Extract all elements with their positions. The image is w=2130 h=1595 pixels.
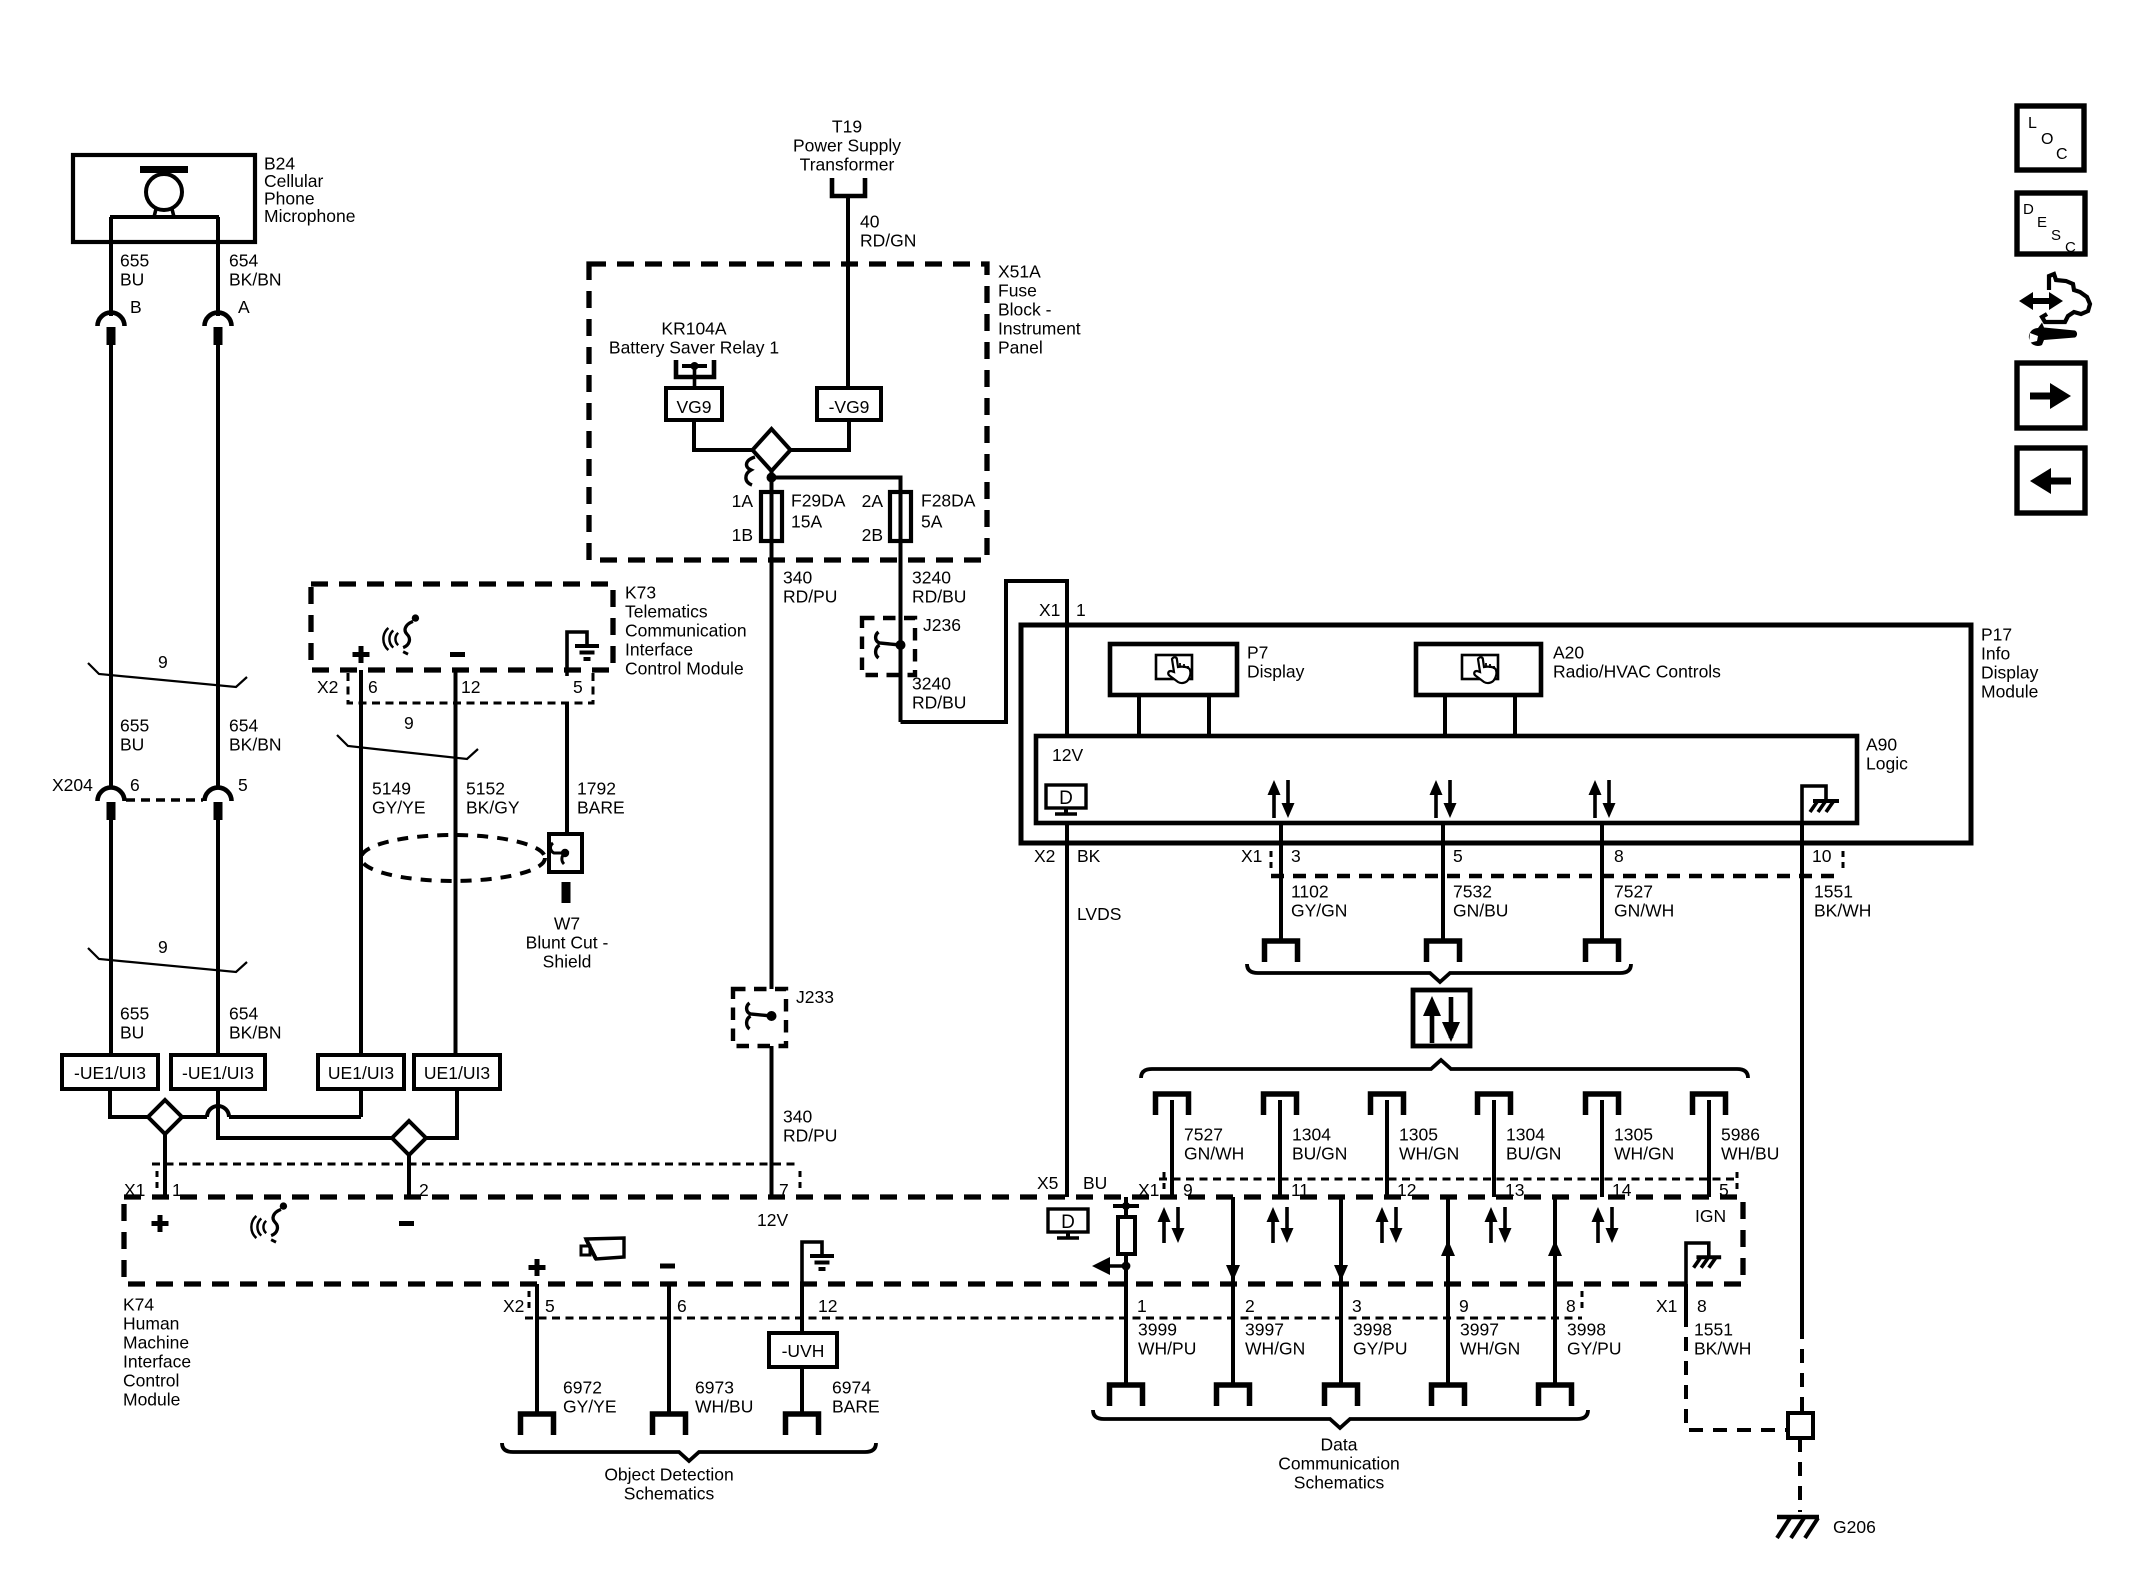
logic A90 box	[1036, 736, 1857, 823]
plus sign K74 pin1	[152, 1215, 169, 1232]
terminal and wire to K74 pin 14	[1586, 1094, 1619, 1115]
wire 6972 GY/YE	[535, 1284, 539, 1414]
svg-text:RD/PU: RD/PU	[783, 587, 837, 607]
plus sign K73	[353, 646, 370, 663]
svg-text:C: C	[2065, 239, 2076, 256]
svg-text:Data: Data	[1321, 1435, 1358, 1455]
svg-text:Communication: Communication	[625, 621, 747, 641]
svg-text:9: 9	[158, 937, 168, 957]
svg-text:Fuse: Fuse	[998, 281, 1037, 301]
svg-text:Blunt Cut -: Blunt Cut -	[526, 933, 609, 953]
module P17 box	[1021, 625, 1971, 843]
svg-text:Display: Display	[1981, 663, 2039, 683]
wire from -VG9 to diamond junction	[791, 420, 849, 450]
junction node below diamond	[770, 471, 774, 492]
svg-text:X5: X5	[1037, 1173, 1058, 1193]
connector X2 strip of K74 bottom	[525, 1317, 1582, 1320]
wire 7532 GN/BU	[1441, 823, 1445, 941]
stem diamond 1 to K74 pin 1	[163, 1134, 167, 1197]
wire 654 BK/BN segment to X204	[216, 345, 220, 788]
svg-text:12: 12	[818, 1296, 837, 1316]
terminal for 7527	[1586, 941, 1619, 962]
minus sign K74 pin2	[399, 1221, 414, 1226]
svg-text:Human: Human	[123, 1314, 179, 1334]
svg-text:E: E	[2037, 214, 2047, 231]
brace above six terminals	[1141, 1060, 1748, 1078]
svg-text:L: L	[2028, 115, 2037, 132]
svg-text:15A: 15A	[791, 512, 822, 532]
svg-text:BU: BU	[120, 735, 144, 755]
icon arrow left box	[2017, 448, 2085, 513]
svg-text:RD/BU: RD/BU	[912, 693, 966, 713]
svg-text:WH/GN: WH/GN	[1460, 1339, 1520, 1359]
svg-text:WH/BU: WH/BU	[695, 1397, 753, 1417]
microphone icon in K73	[383, 614, 419, 654]
svg-text:5: 5	[545, 1296, 555, 1316]
svg-text:Logic: Logic	[1866, 754, 1908, 774]
svg-text:W7: W7	[554, 914, 580, 934]
terminal for 7532	[1427, 941, 1460, 962]
relay KR104A coil symbol	[676, 360, 714, 388]
svg-text:BK/BN: BK/BN	[229, 735, 282, 755]
wire 6973 WH/BU	[667, 1284, 671, 1414]
svg-text:WH/PU: WH/PU	[1138, 1339, 1196, 1359]
svg-text:T19: T19	[832, 117, 862, 137]
svg-text:BARE: BARE	[577, 798, 625, 818]
wire 5152 BK/GY	[454, 670, 458, 1055]
svg-text:G206: G206	[1833, 1517, 1876, 1537]
svg-text:Module: Module	[1981, 682, 2038, 702]
connector X204 dashed link	[126, 798, 203, 801]
connector X204 pin 6	[98, 788, 125, 821]
wire from VG9 to diamond junction	[694, 420, 752, 450]
svg-text:GY/YE: GY/YE	[563, 1397, 617, 1417]
svg-text:3997: 3997	[1460, 1320, 1499, 1340]
blunt cut stub W7	[562, 882, 571, 903]
svg-text:Control Module: Control Module	[625, 659, 744, 679]
svg-text:-UVH: -UVH	[782, 1341, 825, 1361]
icon arrow right box	[2017, 363, 2085, 428]
wire 655 BU lower segment	[109, 820, 113, 1055]
svg-text:C: C	[2056, 146, 2068, 163]
svg-text:BK/BN: BK/BN	[229, 1023, 282, 1043]
svg-text:GY/PU: GY/PU	[1567, 1339, 1621, 1359]
svg-text:BK/WH: BK/WH	[1814, 901, 1871, 921]
svg-text:J236: J236	[923, 615, 961, 635]
svg-text:1305: 1305	[1614, 1125, 1653, 1145]
microphone icon in K74	[251, 1202, 287, 1242]
svg-text:BK/WH: BK/WH	[1694, 1339, 1751, 1359]
svg-text:KR104A: KR104A	[661, 319, 727, 339]
svg-text:X2: X2	[1034, 846, 1055, 866]
svg-text:BU: BU	[120, 270, 144, 290]
wire hop over 654	[182, 1106, 361, 1117]
twisted pair marker 9 K73	[337, 735, 478, 759]
arrow pairs in K74	[1158, 1207, 1185, 1243]
svg-text:P17: P17	[1981, 625, 2012, 645]
svg-text:BU: BU	[120, 1023, 144, 1043]
svg-text:LVDS: LVDS	[1077, 904, 1121, 924]
svg-text:A: A	[238, 297, 250, 317]
terminal 6972	[521, 1414, 554, 1435]
svg-text:Transformer: Transformer	[800, 155, 895, 175]
touch icon P7	[1156, 655, 1192, 683]
svg-text:-VG9: -VG9	[829, 397, 870, 417]
wire 1792 BARE	[565, 703, 569, 836]
connector X2 of K73 outline	[348, 673, 593, 703]
svg-text:8: 8	[1614, 846, 1624, 866]
svg-text:7527: 7527	[1614, 882, 1653, 902]
svg-text:8: 8	[1697, 1296, 1707, 1316]
P7 wires to A90	[1137, 695, 1141, 736]
box -UE1/UI3 second	[171, 1055, 265, 1089]
microphone B24 Cellular Phone Microphone	[73, 155, 255, 242]
wire 3998 GY/PU data	[1339, 1284, 1343, 1385]
brace under A90 terminals	[1247, 964, 1631, 982]
wire 7527 GN/WH	[1600, 823, 1604, 941]
terminal and wire to K74 pin 11	[1264, 1094, 1297, 1115]
wire 1102 GY/GN	[1279, 823, 1283, 941]
svg-text:X51A: X51A	[998, 262, 1041, 282]
svg-text:3997: 3997	[1245, 1320, 1284, 1340]
svg-text:1305: 1305	[1399, 1125, 1438, 1145]
svg-text:6: 6	[368, 677, 378, 697]
svg-text:BARE: BARE	[832, 1397, 880, 1417]
display D icon in A90	[1046, 785, 1086, 814]
terminal 3998	[1325, 1385, 1358, 1406]
svg-text:1304: 1304	[1292, 1125, 1331, 1145]
box UE1/UI3 fourth	[414, 1055, 500, 1089]
terminal 3997	[1217, 1385, 1250, 1406]
connector X1 strip of K74	[152, 1163, 800, 1166]
svg-text:J233: J233	[796, 987, 834, 1007]
svg-text:5149: 5149	[372, 779, 411, 799]
svg-text:X2: X2	[317, 677, 338, 697]
svg-text:Machine: Machine	[123, 1333, 189, 1353]
svg-text:3: 3	[1352, 1296, 1362, 1316]
box UE1/UI3 third	[318, 1055, 404, 1089]
svg-text:12V: 12V	[757, 1210, 788, 1230]
splice curl symbol	[746, 457, 755, 485]
fuse block X51A dashed box	[589, 264, 987, 560]
svg-text:1551: 1551	[1694, 1320, 1733, 1340]
svg-text:655: 655	[120, 1004, 149, 1024]
svg-text:BK: BK	[1077, 846, 1101, 866]
svg-text:6972: 6972	[563, 1378, 602, 1398]
brace data communication	[1093, 1410, 1588, 1428]
terminal and wire to K74 pin 13	[1478, 1094, 1511, 1115]
camera plus sign	[529, 1259, 546, 1276]
icon LOC box	[2017, 106, 2084, 170]
svg-text:WH/GN: WH/GN	[1399, 1144, 1459, 1164]
svg-text:1: 1	[1076, 600, 1086, 620]
single arrows on data wires	[1231, 1197, 1235, 1284]
svg-text:654: 654	[229, 716, 258, 736]
svg-text:1792: 1792	[577, 779, 616, 799]
module K74 dashed box	[124, 1197, 1743, 1284]
wire 3997 WH/GN data	[1446, 1284, 1450, 1385]
wire from UE1/UI3 third down	[359, 1089, 363, 1117]
svg-text:X2: X2	[503, 1296, 524, 1316]
svg-text:3240: 3240	[912, 674, 951, 694]
svg-text:Schematics: Schematics	[1294, 1473, 1385, 1493]
svg-text:BU/GN: BU/GN	[1506, 1144, 1561, 1164]
twisted pair marker 9 upper	[88, 663, 247, 687]
svg-text:3998: 3998	[1353, 1320, 1392, 1340]
svg-text:Display: Display	[1247, 662, 1305, 682]
svg-text:340: 340	[783, 1107, 812, 1127]
dashed wire 1551 from IGN	[1684, 1284, 1688, 1313]
svg-text:655: 655	[120, 251, 149, 271]
wire 3240 RD/BU routing to P17 X1-1	[901, 581, 1068, 736]
wire 654 BK/BN lower segment	[216, 820, 220, 1055]
svg-text:1: 1	[1137, 1296, 1147, 1316]
diamond junction 1	[148, 1100, 182, 1134]
wire 1551 BK/WH from A90 pin 10	[1800, 823, 1804, 1325]
chassis ground IGN in K74	[1686, 1243, 1721, 1284]
wire 6974 BARE with -UVH	[800, 1284, 804, 1333]
svg-text:RD/BU: RD/BU	[912, 587, 966, 607]
svg-text:WH/BU: WH/BU	[1721, 1144, 1779, 1164]
svg-text:340: 340	[783, 568, 812, 588]
splice J236 symbol	[876, 632, 906, 658]
svg-text:12: 12	[461, 677, 480, 697]
svg-text:O: O	[2041, 131, 2053, 148]
svg-text:654: 654	[229, 1004, 258, 1024]
svg-text:6973: 6973	[695, 1378, 734, 1398]
svg-text:Telematics: Telematics	[625, 602, 708, 622]
svg-text:B: B	[130, 297, 142, 317]
splice J233 dashed box	[733, 989, 786, 1046]
svg-text:5: 5	[238, 775, 248, 795]
wire 5149 GY/YE	[359, 670, 363, 1055]
svg-text:-UE1/UI3: -UE1/UI3	[182, 1063, 254, 1083]
stem diamond 2 to K74 pin 2	[407, 1155, 411, 1197]
connector X1 dashed strip of P17	[1271, 874, 1843, 878]
svg-text:GN/BU: GN/BU	[1453, 901, 1508, 921]
svg-text:1A: 1A	[732, 491, 754, 511]
svg-text:5: 5	[573, 677, 583, 697]
camera icon	[581, 1238, 624, 1259]
connector X1 strip mid labels	[1159, 1178, 1737, 1181]
svg-text:GN/WH: GN/WH	[1184, 1144, 1244, 1164]
svg-text:A20: A20	[1553, 643, 1584, 663]
svg-text:Info: Info	[1981, 644, 2010, 664]
minus sign K73	[450, 652, 465, 657]
svg-text:VG9: VG9	[676, 397, 711, 417]
resistor and arrow on K74 pin 1 line	[1092, 1197, 1139, 1284]
svg-text:Interface: Interface	[625, 640, 693, 660]
terminal 3999	[1110, 1385, 1143, 1406]
svg-text:Block -: Block -	[998, 300, 1052, 320]
terminal and wire to K74 pin 12	[1371, 1094, 1404, 1115]
svg-text:5986: 5986	[1721, 1125, 1760, 1145]
ground symbol for pin 12	[802, 1242, 822, 1284]
data link arrow box	[1413, 990, 1470, 1046]
svg-text:D: D	[2023, 201, 2034, 218]
dashed wire 1551 from A90	[1800, 1325, 1804, 1413]
svg-text:A90: A90	[1866, 735, 1897, 755]
svg-text:F28DA: F28DA	[921, 491, 976, 511]
svg-text:UE1/UI3: UE1/UI3	[328, 1063, 394, 1083]
splice J236 dashed box	[862, 618, 915, 675]
svg-text:1551: 1551	[1814, 882, 1853, 902]
connector pin B	[98, 313, 125, 346]
svg-text:-UE1/UI3: -UE1/UI3	[74, 1063, 146, 1083]
relay contact box -VG9	[817, 388, 881, 420]
svg-text:IGN: IGN	[1695, 1206, 1726, 1226]
svg-text:Control: Control	[123, 1371, 179, 1391]
svg-text:UE1/UI3: UE1/UI3	[424, 1063, 490, 1083]
svg-text:K73: K73	[625, 583, 656, 603]
svg-text:1B: 1B	[732, 525, 753, 545]
svg-text:5152: 5152	[466, 779, 505, 799]
wire 655 BU from B24 pin B	[109, 217, 113, 316]
wire 654 BK/BN from B24 pin A	[216, 217, 220, 316]
svg-text:RD/PU: RD/PU	[783, 1126, 837, 1146]
wire from -UE1/UI3 to diamond 1	[110, 1089, 148, 1117]
wire 3999 WH/PU data	[1124, 1284, 1128, 1385]
wire from -UE1/UI3 second to diamond 2	[218, 1089, 392, 1138]
svg-text:9: 9	[404, 713, 414, 733]
svg-text:Object Detection: Object Detection	[604, 1465, 733, 1485]
svg-text:BU/GN: BU/GN	[1292, 1144, 1347, 1164]
diamond junction 2	[392, 1121, 426, 1155]
diamond junction splice	[753, 429, 791, 471]
camera minus sign	[660, 1264, 675, 1269]
ground symbol in K73	[567, 632, 587, 676]
svg-text:Shield: Shield	[543, 952, 592, 972]
svg-text:Communication: Communication	[1278, 1454, 1400, 1474]
svg-text:3240: 3240	[912, 568, 951, 588]
svg-text:S: S	[2051, 227, 2061, 244]
svg-text:BU: BU	[1083, 1173, 1107, 1193]
svg-text:X1: X1	[1656, 1296, 1677, 1316]
svg-text:654: 654	[229, 251, 258, 271]
svg-text:WH/GN: WH/GN	[1614, 1144, 1674, 1164]
svg-text:GY/GN: GY/GN	[1291, 901, 1347, 921]
ground G206 symbol	[1777, 1517, 1819, 1538]
svg-text:X1: X1	[1241, 846, 1262, 866]
splice J233 symbol	[747, 1003, 777, 1029]
svg-text:BK/GY: BK/GY	[466, 798, 520, 818]
dashed wire to G206	[1798, 1438, 1802, 1512]
wire 3997 WH/GN data	[1231, 1284, 1235, 1385]
svg-text:GY/PU: GY/PU	[1353, 1339, 1407, 1359]
svg-text:8: 8	[1566, 1296, 1576, 1316]
wire from UE1/UI3 fourth to diamond 2	[426, 1089, 457, 1138]
terminal and wire to K74 pin 5	[1693, 1094, 1726, 1115]
junction box G206 splice	[1788, 1413, 1813, 1438]
display D icon in K74	[1048, 1209, 1088, 1238]
svg-text:Radio/HVAC Controls: Radio/HVAC Controls	[1553, 662, 1721, 682]
svg-text:1102: 1102	[1291, 882, 1329, 902]
svg-text:X1: X1	[1039, 600, 1060, 620]
arrow pair A90 pin 5	[1430, 780, 1457, 818]
terminal 6974	[786, 1414, 819, 1435]
svg-text:X204: X204	[52, 775, 93, 795]
arrow pair A90 pin 8	[1589, 780, 1616, 818]
touch icon A20	[1462, 655, 1498, 683]
svg-text:10: 10	[1812, 846, 1832, 866]
svg-text:GY/YE: GY/YE	[372, 798, 426, 818]
connector X204 pin 5	[205, 788, 232, 820]
wire to fuse F28DA	[772, 478, 901, 493]
icon vehicle with arrow and wrench	[2019, 274, 2090, 346]
svg-text:7532: 7532	[1453, 882, 1492, 902]
svg-text:6974: 6974	[832, 1378, 871, 1398]
svg-text:5A: 5A	[921, 512, 943, 532]
svg-text:9: 9	[158, 652, 168, 672]
svg-text:2B: 2B	[862, 525, 883, 545]
svg-text:D: D	[1059, 788, 1073, 809]
wire 3998 GY/PU data	[1553, 1284, 1557, 1385]
fuse F28DA 5A	[899, 492, 903, 559]
terminal 6973	[653, 1414, 686, 1435]
svg-text:655: 655	[120, 716, 149, 736]
controls A20 box	[1416, 644, 1541, 695]
svg-text:K74: K74	[123, 1295, 154, 1315]
box -UVH	[769, 1333, 837, 1367]
svg-text:BK/BN: BK/BN	[229, 270, 282, 290]
terminal and wire to K74 pin 9	[1156, 1094, 1189, 1115]
wire X2 BK LVDS	[1065, 823, 1069, 1197]
shield termination W7 box	[549, 834, 582, 872]
wire 3240 RD/BU below fuse block	[899, 559, 903, 722]
svg-text:Microphone: Microphone	[264, 206, 355, 226]
svg-text:3999: 3999	[1138, 1320, 1177, 1340]
relay contact box VG9	[666, 388, 722, 420]
svg-text:F29DA: F29DA	[791, 491, 846, 511]
icon DESC box	[2017, 193, 2085, 254]
chassis ground in A90	[1802, 786, 1839, 823]
svg-text:12V: 12V	[1052, 745, 1083, 765]
svg-text:Battery Saver Relay 1: Battery Saver Relay 1	[609, 338, 779, 358]
box -UE1/UI3 first	[62, 1055, 158, 1089]
display P7 box	[1110, 644, 1237, 695]
svg-text:Panel: Panel	[998, 338, 1043, 358]
shield ellipse	[361, 835, 545, 881]
transformer T19 symbol	[832, 178, 865, 196]
svg-text:3998: 3998	[1567, 1320, 1606, 1340]
svg-text:Module: Module	[123, 1390, 180, 1410]
connector pin A	[205, 313, 232, 345]
terminal 3998	[1539, 1385, 1572, 1406]
svg-text:Schematics: Schematics	[624, 1484, 715, 1504]
twisted pair marker 9 lower	[88, 948, 247, 972]
svg-text:2: 2	[1245, 1296, 1255, 1316]
svg-text:Power Supply: Power Supply	[793, 136, 901, 156]
svg-text:Interface: Interface	[123, 1352, 191, 1372]
svg-text:D: D	[1061, 1212, 1075, 1233]
wire 340 RD/PU to K74 pin 7	[770, 1046, 774, 1197]
svg-text:5: 5	[1453, 846, 1463, 866]
svg-text:2A: 2A	[862, 491, 884, 511]
svg-text:P7: P7	[1247, 643, 1268, 663]
svg-text:WH/GN: WH/GN	[1245, 1339, 1305, 1359]
wire 340 RD/PU below fuse block	[770, 559, 774, 989]
terminal for 1102	[1265, 941, 1298, 962]
wire 655 BU segment to X204	[109, 345, 113, 788]
svg-text:3: 3	[1291, 846, 1301, 866]
svg-text:6: 6	[677, 1296, 687, 1316]
terminal 3997	[1432, 1385, 1465, 1406]
module K73 dashed box	[311, 584, 613, 670]
svg-text:Instrument: Instrument	[998, 319, 1081, 339]
brace object detection	[502, 1443, 876, 1461]
svg-text:GN/WH: GN/WH	[1614, 901, 1674, 921]
fuse F29DA 15A	[770, 492, 774, 559]
